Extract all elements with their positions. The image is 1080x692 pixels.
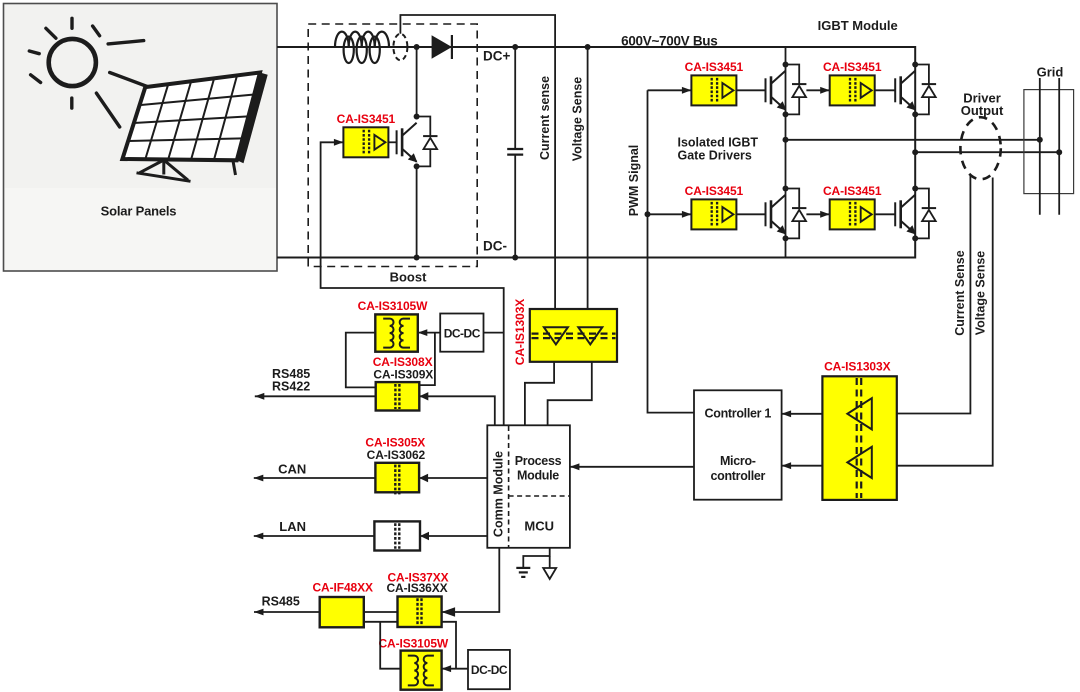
wire comm module to LAN coupler (420, 535, 487, 537)
wire RS485 out (bottom) (254, 611, 320, 613)
svg-text:DC+: DC+ (483, 49, 510, 64)
isolated LAN coupler box (374, 521, 420, 550)
sun (29, 18, 99, 108)
svg-text:DC-DC: DC-DC (471, 663, 508, 677)
voltage sense wire from DC+ bus to CA-IS1303X (587, 47, 589, 309)
wire CAN out (254, 477, 376, 479)
junction node boost switch / diode anode (414, 44, 420, 50)
isolation transformer CA-IS3105W box (bottom) (401, 651, 442, 690)
earth ground symbol (516, 568, 530, 577)
DC-DC converter box (bottom) (468, 650, 510, 689)
svg-text:DC-DC: DC-DC (444, 326, 481, 340)
wire CA-IF48XX to CA-IS36XX (supply) (364, 621, 398, 623)
solar panel stand (137, 159, 236, 181)
isolated amplifier CA-IS1303X (bus sense) box (530, 309, 617, 362)
voltage sense wire from output to CA-IS1303X (right) (897, 178, 993, 466)
wire RS485/RS422 out (255, 395, 376, 397)
svg-text:CA-IS3451: CA-IS3451 (685, 60, 744, 74)
junction dots of Q2 (top left) (783, 62, 789, 68)
MCU dashed divider (509, 495, 570, 497)
wire sense amp to controller (current) (782, 413, 823, 415)
svg-text:CA-IS3451: CA-IS3451 (337, 112, 396, 126)
svg-text:IGBT Module: IGBT Module (818, 18, 898, 33)
RS485 interface CA-IF48XX box (320, 597, 364, 627)
grid bus line 1 (1039, 78, 1041, 215)
solar panel picture frame (4, 4, 278, 272)
junction dots of Q1 (boost switch) (414, 114, 420, 120)
gate wire U2-Q2 (736, 89, 765, 91)
svg-text:CA-IS3105W: CA-IS3105W (358, 299, 428, 313)
wire sense amp to controller (voltage) (782, 465, 823, 467)
wire LAN out (254, 535, 375, 537)
svg-text:CA-IS1303X: CA-IS1303X (513, 299, 527, 365)
current sense wire from output to CA-IS1303X (right) (897, 176, 971, 414)
freewheeling diode of Q1 (boost switch) (417, 117, 438, 167)
current transformer ellipse (boost current sense) (393, 34, 407, 60)
svg-text:CAN: CAN (278, 462, 306, 477)
svg-text:LAN: LAN (279, 519, 306, 534)
gate wire driver U1 to Q1 (388, 141, 396, 143)
DC-DC converter box (top) (440, 314, 483, 352)
wire PWM to driver U4 (648, 213, 692, 215)
Driver Output dashed ellipse (960, 117, 1000, 179)
IGBT Q3 (top right) (895, 71, 916, 111)
svg-text:CA-IS3451: CA-IS3451 (823, 184, 882, 198)
svg-text:Controller 1: Controller 1 (705, 407, 772, 421)
svg-text:Comm Module: Comm Module (492, 451, 506, 537)
isolation transformer CA-IS3105W box (375, 314, 418, 351)
IGBT Q1 (boost switch) (397, 123, 418, 163)
bridge left leg wire (785, 47, 787, 258)
IGBT Q2 (top left) (766, 71, 787, 111)
svg-text:Output: Output (961, 103, 1004, 118)
wire boost switch source to DC- (416, 169, 418, 258)
comm module dashed divider (508, 426, 510, 547)
svg-text:Grid: Grid (1037, 65, 1064, 80)
svg-text:controller: controller (710, 469, 765, 483)
gate wire U3-Q3 (875, 89, 896, 91)
svg-text:CA-IS36XX: CA-IS36XX (386, 581, 447, 595)
junction dots of Q4 (bottom left) (783, 186, 789, 192)
svg-text:CA-IS309X: CA-IS309X (373, 367, 433, 381)
isolated amplifier CA-IS1303X (output sense) box (822, 376, 896, 500)
svg-text:CA-IS3451: CA-IS3451 (823, 60, 882, 74)
solar panel (122, 73, 267, 164)
svg-text:CA-IS3105W: CA-IS3105W (378, 636, 448, 650)
wire Q4 diode to driver U5 (806, 213, 829, 215)
PWM wire from process module to boost driver U1 (321, 142, 504, 425)
freewheeling diode of Q5 (bottom right) (915, 189, 936, 239)
svg-text:600V~700V Bus: 600V~700V Bus (621, 34, 717, 49)
svg-text:Isolated IGBT: Isolated IGBT (678, 136, 759, 150)
bridge right leg wire (914, 46, 916, 259)
junction dots of Q3 (top right) (912, 62, 918, 68)
junction dots of Q5 (bottom right) (912, 186, 918, 192)
isolated CAN transceiver CA-IS305X/CA-IS3062 box (375, 463, 419, 495)
wire DC-DC supply to RS485 transceiver (right) (419, 333, 435, 386)
grid box (1024, 90, 1074, 194)
gate wire U5-Q5 (875, 213, 896, 215)
svg-text:Boost: Boost (390, 270, 428, 285)
output wire phase B (right leg midpoint to grid) (915, 151, 1059, 153)
wire comm module to RS485 transceiver (419, 396, 495, 425)
controller box (Controller 1 / Micro-controller) (694, 390, 782, 499)
svg-text:Current sense: Current sense (538, 76, 552, 160)
svg-text:RS485: RS485 (262, 595, 300, 609)
boost diode D1 (432, 35, 452, 59)
svg-text:CA-IF48XX: CA-IF48XX (312, 581, 373, 595)
DC bus capacitor C1 (507, 47, 523, 258)
wire DC-DC to PWM rail (484, 332, 504, 334)
wire comm module to CA-IS36XX (442, 548, 500, 612)
svg-text:Micro-: Micro- (720, 454, 756, 468)
svg-text:Solar Panels: Solar Panels (101, 204, 177, 219)
wire supply tap left to transformer (380, 622, 400, 669)
wire CA-IF48XX to CA-IS36XX (signal) (364, 611, 398, 613)
isolator CA-IS37XX/CA-IS36XX box (398, 597, 442, 628)
svg-text:Gate Drivers: Gate Drivers (678, 149, 752, 163)
gate driver U5 (CA-IS3451) box (830, 199, 875, 229)
boost inductor L1 (335, 32, 389, 63)
PWM signal wire from Controller 1 to gate drivers (648, 90, 695, 412)
gate driver U2 (CA-IS3451) box (691, 75, 736, 105)
isolated RS485 transceiver CA-IS308X/309X box (376, 382, 420, 410)
wire from current transformer to CA-IS1303X sense input (400, 15, 555, 309)
wire supply tap right from CA-IS36XX (442, 622, 456, 669)
gate driver U4 (CA-IS3451) box (691, 199, 736, 229)
svg-text:PWM Signal: PWM Signal (627, 145, 641, 217)
svg-text:CA-IS1303X: CA-IS1303X (824, 359, 890, 373)
gate driver U1 (boost) (CA-IS3451) box (343, 127, 388, 157)
svg-text:CA-IS3062: CA-IS3062 (367, 448, 426, 462)
sun rays toward panel (96, 41, 147, 127)
svg-text:Module: Module (517, 468, 559, 482)
svg-text:DC-: DC- (483, 239, 507, 254)
gate driver U3 (CA-IS3451) box (830, 75, 875, 105)
grid bus line 2 (1058, 78, 1060, 215)
svg-text:Voltage Sense: Voltage Sense (974, 251, 988, 336)
chassis ground symbol (open triangle) (543, 568, 556, 579)
wire boost switch drain (416, 47, 418, 119)
IGBT Q4 (bottom left) (766, 195, 787, 235)
svg-text:Current Sense: Current Sense (953, 250, 967, 335)
process module box (Comm Module / Process Module / MCU) (487, 425, 570, 548)
freewheeling diode of Q2 (top left) (786, 65, 807, 115)
IGBT Q5 (bottom right) (895, 195, 916, 235)
wire DC+ bus from solar panels to IGBT bridge (277, 46, 915, 48)
wire DC- return rail (277, 257, 915, 259)
gate wire U4-Q4 (736, 213, 765, 215)
wire Q2 diode to driver U3 (806, 89, 829, 91)
wire to chassis ground (549, 556, 551, 568)
svg-text:Voltage Sense: Voltage Sense (570, 77, 584, 162)
svg-text:RS422: RS422 (272, 379, 310, 393)
wire transformer supply to RS485 transceiver (left) (346, 333, 376, 388)
boost converter dashed enclosure (308, 24, 477, 267)
wire DC-DC to transformer (418, 332, 440, 334)
output wire phase A (left leg midpoint to grid) (786, 139, 1040, 141)
wire micro-controller to process module (570, 466, 694, 468)
freewheeling diode of Q3 (top right) (915, 65, 936, 115)
wire comm module to CAN transceiver (419, 477, 487, 479)
wire MCU to ground (523, 548, 549, 568)
wire DC-DC to transformer (bottom) (442, 668, 468, 670)
wire PWM to driver U2 (648, 89, 692, 91)
svg-text:MCU: MCU (524, 519, 554, 534)
svg-text:Process: Process (515, 454, 562, 468)
wire bus-sense amp output (current) to process module (525, 362, 554, 426)
wire bus-sense amp output (voltage) to process module (548, 362, 592, 426)
freewheeling diode of Q4 (bottom left) (786, 189, 807, 239)
svg-text:CA-IS3451: CA-IS3451 (685, 184, 744, 198)
